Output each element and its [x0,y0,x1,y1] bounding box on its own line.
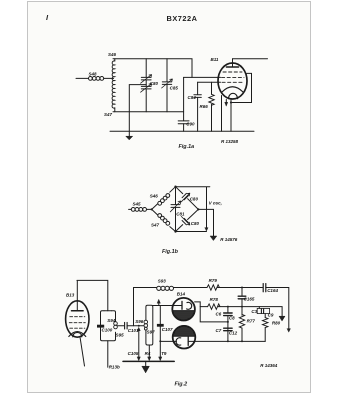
coil S46/S47 tuning inductor [114,59,116,61]
svg-text:R80: R80 [272,321,281,326]
node junction [230,101,232,103]
wire anode supply [233,58,268,60]
svg-text:B14: B14 [177,291,186,296]
resistor R66 [209,82,214,131]
svg-text:R79: R79 [209,278,218,283]
svg-text:S97: S97 [147,330,156,335]
node row junctions [227,306,229,308]
anode bar upper triode [181,301,183,309]
wire grid row 2 [198,81,221,83]
heater loop of B11 [229,93,238,98]
svg-text:C85: C85 [170,86,179,91]
svg-text:C100: C100 [102,328,113,333]
cathode of B13 [69,332,86,337]
wire filter2 bottom to chassis [148,345,151,361]
svg-text:R 14576: R 14576 [220,237,238,242]
resistor R77 [239,314,244,341]
wire top vertex out [176,186,210,188]
wire cathode lead left [221,96,223,132]
anode of B13 [72,281,84,311]
grid 3 dashes [222,81,244,83]
svg-text:S94: S94 [107,318,116,323]
coil S96 loops on filter edge [144,320,148,330]
wire oscillator input [129,208,132,210]
svg-text:C8: C8 [229,316,235,321]
svg-text:C84: C84 [188,95,197,100]
wire mid rail left stub [160,340,176,342]
svg-text:R4: R4 [145,351,151,356]
capacitor C85 (trimmer) [162,59,173,112]
wire B13 anode to filter [77,280,108,310]
wire screen bracket [231,73,252,102]
ground arrow fig2 [142,361,149,372]
tube B13 envelope [66,301,89,337]
svg-text:C80: C80 [191,221,200,226]
svg-text:C107: C107 [162,327,173,332]
svg-text:V osc,: V osc, [209,201,222,206]
coil S48 [89,77,114,81]
svg-text:S45: S45 [133,201,142,206]
band filter unit 1 outline [101,311,116,341]
ground arrow fig1b [210,236,217,240]
wire tank inner bottom rail [113,111,184,113]
wire bottom vertex out [176,231,207,233]
wire top rail left drop [133,288,135,326]
tube B14 lower triode [173,325,196,349]
svg-text:C80: C80 [190,196,199,201]
band filter unit 2 outline [146,305,153,345]
svg-text:C6: C6 [216,312,222,317]
coil S47 (diamond lower-left arm) [152,209,176,231]
tube B14 upper triode [172,298,195,321]
svg-text:R78: R78 [210,297,219,302]
svg-text:S95: S95 [116,332,125,337]
coil S46 (diamond upper-left arm) [152,187,176,210]
node C101 junction [138,325,140,327]
tube B11 envelope [218,63,247,99]
resistor R79 [207,285,219,290]
wire top rail right + output arrow [266,288,291,333]
capacitor C101 [117,322,144,329]
coil S93 [157,286,207,290]
ground arrow fig1a [126,136,133,140]
svg-text:T9: T9 [161,351,167,356]
svg-text:R 13258: R 13258 [221,139,239,144]
capacitor C80 (diamond upper-right arm, variable) [176,187,199,210]
wire bus with C107 [159,306,161,325]
capacitor C164 [263,284,266,292]
svg-text:R13b: R13b [109,364,120,369]
capacitor C165 [238,288,246,316]
capacitor C80 (two-gang variable) [141,59,152,112]
svg-text:S47: S47 [104,112,113,117]
wire fig1a bottom rail [110,130,254,132]
wire grid line to B14 [153,305,182,307]
svg-text:S47: S47 [151,222,160,227]
svg-text:R66: R66 [200,104,209,109]
svg-text:C165: C165 [244,297,255,302]
grid 1 dashes [223,71,242,73]
node bottom vertex [174,230,176,232]
capacitor C9 box [257,307,269,314]
svg-text:Fig.1a: Fig.1a [179,144,195,150]
svg-text:C80: C80 [150,81,159,86]
svg-text:C7: C7 [216,328,222,333]
node right vertex [197,208,199,210]
svg-text:BX722A: BX722A [167,14,198,23]
svg-text:R 14364: R 14364 [260,363,278,368]
resistor R80 [263,314,268,342]
V osc indicator [205,187,208,231]
cathode of B11 [222,87,243,92]
wire AVC drop with arrows [137,327,140,360]
capacitor C12 [224,328,232,341]
resistor R78 [200,304,220,309]
wire cathode lead right [230,99,232,131]
svg-text:C9: C9 [268,312,274,317]
capacitor C80 (diamond lower-right arm, variable) [176,209,199,231]
wire mid rail from lower anode [188,340,265,342]
node left vertex [151,208,153,210]
capacitor C8 [224,307,232,330]
svg-text:Fig.1b: Fig.1b [162,249,179,255]
svg-text:S93: S93 [158,279,167,284]
anode bar lower triode [187,337,189,346]
svg-text:C105: C105 [128,351,139,356]
heater loop of B13 [73,332,82,337]
capacitor C100 [97,325,104,328]
capacitor C81 (centre, trimmer) [170,187,181,232]
wire upper triode bus to C8 column [200,302,228,322]
coil S94/S95 loops on filter edge [114,322,118,329]
anode of B11 [227,59,239,67]
svg-text:S46: S46 [150,194,159,199]
capacitor C84 [194,82,201,131]
coil S45 [131,208,151,212]
svg-text:B11: B11 [211,57,219,62]
wire right vertex to ground [198,209,213,236]
node bus C8 junction [227,321,229,323]
capacitor C107 [157,324,164,361]
wire tank top rail [113,59,192,78]
svg-text:R77: R77 [247,319,256,324]
wire filter1 bottom terminal [107,341,109,367]
svg-text:S48: S48 [89,72,98,77]
grid 2 dashes [222,76,245,78]
node bus mid-rail junction [159,340,161,342]
svg-text:S46: S46 [108,52,117,57]
svg-text:C81: C81 [176,211,185,216]
cathode arc upper triode [187,302,192,309]
cathode arrow [225,100,228,107]
wire antenna input [76,77,89,79]
svg-text:B13: B13 [66,293,75,298]
wire C80 tap to ground [129,85,146,136]
svg-text:S96: S96 [135,319,144,324]
node mid rail junctions [227,340,229,342]
svg-text:Fig.2: Fig.2 [175,381,188,387]
svg-text:C164: C164 [267,288,278,293]
wire grid row [184,76,221,78]
wire fig2 top rail [134,287,157,289]
wire B13 cathode lead [80,337,85,366]
svg-text:C90: C90 [186,122,195,127]
wire upper triode right lead [195,301,201,303]
cathode arc lower triode [176,338,181,345]
node top vertex [174,186,176,188]
grid dashes B13 [69,317,85,329]
svg-text:C12: C12 [229,331,238,336]
wire row bus [218,307,285,321]
chassis line [123,360,174,362]
wire top rail to C164 [217,287,262,289]
AVC arrow on grid line [157,299,160,305]
capacitor C90 [178,77,189,131]
svg-text:C3: C3 [251,309,257,314]
